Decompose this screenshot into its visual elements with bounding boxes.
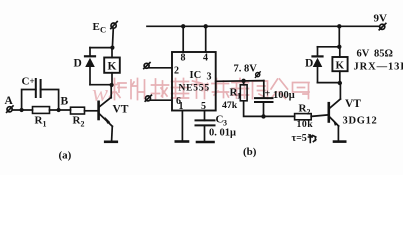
ground C3: [197, 141, 214, 144]
wire top parallel: [318, 46, 340, 48]
svg-text:6V: 6V: [357, 49, 370, 60]
terminal EC: [111, 22, 117, 29]
emitter wire: [111, 126, 114, 141]
label K: [336, 60, 345, 72]
junction: [110, 46, 114, 50]
wire to rail: [338, 26, 340, 47]
junction rail: [337, 24, 341, 28]
terminal A: [7, 106, 13, 112]
watermark: [92, 81, 108, 107]
collector wire: [339, 83, 341, 99]
label D: [74, 58, 82, 70]
pin 8 label: [181, 53, 186, 64]
label C3: [216, 114, 228, 128]
label tau: [292, 133, 307, 144]
transistor VT 3DG12: [329, 99, 341, 126]
label R2: [73, 115, 85, 129]
wire to base: [85, 110, 99, 112]
wire pin1: [181, 111, 183, 141]
svg-text:2: 2: [174, 66, 179, 77]
IC U1 NE555: [172, 52, 216, 111]
wire pin6 input: [150, 99, 172, 101]
svg-text:E: E: [93, 21, 100, 33]
transistor VT: [99, 98, 113, 127]
ground: [105, 141, 117, 144]
svg-text:D: D: [305, 58, 313, 70]
pin 6 label: [176, 96, 181, 107]
junction R 47k: [241, 79, 245, 83]
test point: [255, 72, 260, 78]
svg-text:D: D: [74, 58, 82, 70]
watermark glyphs: [110, 79, 310, 100]
junction node B: [57, 108, 61, 112]
terminal pin6 input: [145, 95, 151, 101]
wire pin4: [205, 26, 207, 52]
label 10k: [297, 119, 314, 130]
power rail wire: [147, 25, 380, 27]
junction: [20, 108, 24, 112]
junction: [110, 83, 114, 87]
svg-text:JRX—13B: JRX—13B: [354, 62, 403, 73]
svg-text:2: 2: [81, 120, 85, 129]
svg-text:47k: 47k: [222, 100, 238, 111]
svg-text:A: A: [5, 95, 14, 107]
svg-text:+: +: [30, 76, 35, 86]
svg-text:VT: VT: [345, 98, 361, 110]
resistor R1 47k: [240, 81, 263, 117]
junction: [337, 45, 341, 49]
svg-text:NE555: NE555: [179, 84, 210, 94]
capacitor C: [22, 79, 59, 110]
wire to R2: [264, 115, 295, 117]
svg-text:10k: 10k: [297, 119, 314, 130]
label NE555: [179, 84, 210, 94]
svg-text:7. 8V: 7. 8V: [234, 64, 258, 75]
svg-text:+: +: [265, 89, 271, 100]
label R1: [35, 115, 47, 129]
svg-text:IC: IC: [190, 70, 202, 81]
label (a): [59, 150, 72, 162]
wire bottom parallel: [318, 82, 340, 84]
label 0.01u: [209, 128, 236, 139]
svg-text:C: C: [22, 76, 30, 88]
label R2: [299, 103, 311, 117]
wire pin8: [182, 26, 184, 52]
emitter wire: [337, 126, 339, 141]
junction pin4: [204, 24, 208, 28]
ground pin1: [176, 140, 188, 143]
capacitor C3: [196, 111, 215, 142]
svg-text:VT: VT: [113, 104, 129, 116]
label 6V 85ohm: [357, 49, 393, 60]
svg-text:8: 8: [181, 53, 186, 64]
label IC: [190, 70, 202, 81]
wire pin2 input: [149, 67, 172, 69]
svg-text:100μ: 100μ: [273, 90, 295, 101]
relay K: [104, 48, 120, 85]
wire A to R1: [12, 109, 32, 111]
label plus: [265, 89, 271, 100]
label VT: [113, 104, 129, 116]
label 47k: [222, 100, 238, 111]
label EC: [93, 21, 107, 35]
svg-text:4: 4: [203, 53, 208, 64]
pin 2 label: [174, 66, 179, 77]
capacitor 100u: [255, 81, 273, 117]
pin 3 label: [207, 72, 212, 83]
label JRX-13B: [354, 62, 403, 73]
terminal 9V: [379, 23, 386, 29]
resistor R1: [33, 107, 50, 114]
label 100u: [273, 90, 295, 101]
wire to EC terminal: [111, 28, 114, 47]
svg-text:1: 1: [237, 92, 241, 101]
terminal pin2 input: [144, 63, 150, 69]
svg-text:K: K: [108, 61, 117, 73]
wire diode bottom: [90, 84, 112, 86]
wire top: [90, 47, 112, 49]
svg-text:1: 1: [43, 120, 47, 129]
svg-text:K: K: [336, 60, 345, 72]
svg-text:0. 01μ: 0. 01μ: [209, 128, 236, 139]
collector wire: [110, 85, 112, 98]
ground: [334, 140, 345, 143]
label 3DG12: [343, 116, 378, 127]
svg-text:τ=5: τ=5: [292, 133, 307, 144]
svg-text:3: 3: [223, 119, 227, 128]
label K: [108, 61, 117, 73]
svg-text:2: 2: [307, 108, 311, 117]
pin 1 label: [179, 101, 184, 112]
svg-text:C: C: [100, 25, 106, 35]
junction cap bottom: [261, 114, 265, 118]
diode D: [85, 48, 95, 85]
label miao glyph: [308, 135, 315, 143]
label (b): [243, 146, 257, 158]
pin 4 label: [203, 53, 208, 64]
svg-text:(a): (a): [59, 150, 72, 162]
svg-text:(b): (b): [243, 146, 257, 158]
label VT: [345, 98, 361, 110]
svg-text:3DG12: 3DG12: [343, 116, 378, 127]
wire R2 to base: [311, 115, 329, 117]
node B label: [61, 96, 69, 108]
label R1: [230, 87, 242, 101]
svg-text:3: 3: [207, 72, 212, 83]
svg-text:85Ω: 85Ω: [374, 49, 393, 60]
resistor R2 10k: [295, 114, 312, 120]
wire pin3: [216, 80, 264, 83]
junction pin8: [181, 24, 185, 28]
label 7.8V: [234, 64, 258, 75]
label D: [305, 58, 313, 70]
resistor R2: [71, 107, 85, 114]
label 9V: [374, 13, 388, 25]
relay K: [332, 47, 347, 83]
svg-text:B: B: [61, 96, 69, 108]
node A label: [5, 95, 14, 107]
svg-text:9V: 9V: [374, 13, 388, 25]
label C+: [22, 76, 35, 88]
wire R1 to R2: [50, 109, 71, 111]
diode D: [313, 47, 323, 83]
pin 5 label: [201, 101, 206, 112]
junction: [338, 81, 342, 85]
